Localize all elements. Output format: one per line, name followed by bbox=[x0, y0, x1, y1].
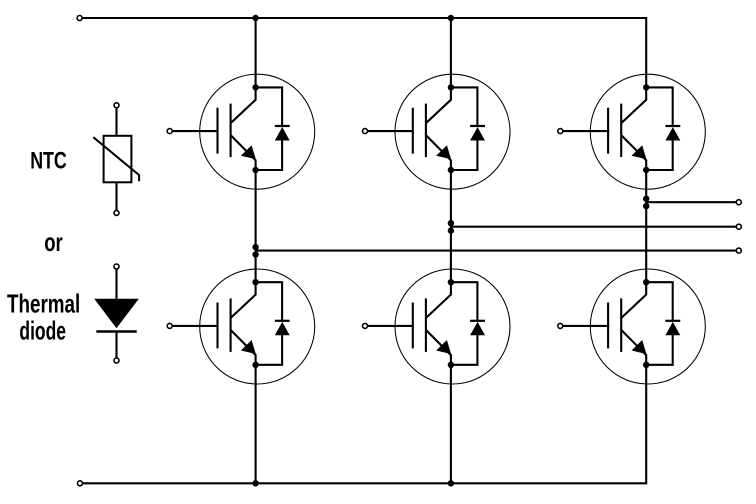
transistor Q3 (IGBT) bbox=[608, 87, 646, 170]
node: bottom rail junction bbox=[252, 480, 258, 486]
wire: phase U leg, upper emitter to lower collector bbox=[255, 170, 257, 282]
transistor envelope circle Q4 bbox=[200, 269, 315, 384]
terminal: NTC top bbox=[114, 103, 119, 108]
node: emitter junction of Q5 bbox=[448, 362, 454, 368]
transistor Q1 (IGBT) bbox=[218, 87, 256, 170]
diode D3 (anti-parallel) bbox=[646, 87, 680, 170]
node: emitter junction of Q3 bbox=[643, 167, 649, 173]
wire: gate lead of Q2 bbox=[368, 130, 414, 132]
gate terminal of Q6 bbox=[558, 323, 563, 328]
node: collector junction of Q2 bbox=[448, 84, 454, 90]
node: top rail junction bbox=[252, 15, 258, 21]
wire: phase U output line bbox=[256, 250, 737, 252]
svg-text:Thermal: Thermal bbox=[7, 289, 80, 319]
node: top rail junction bbox=[448, 15, 454, 21]
transistor envelope circle Q2 bbox=[395, 74, 510, 189]
node: emitter junction of Q1 bbox=[252, 167, 258, 173]
gate terminal of Q1 bbox=[167, 129, 172, 134]
transistor envelope circle Q1 bbox=[200, 74, 315, 189]
diode D2 (anti-parallel) bbox=[451, 87, 485, 170]
diode D4 (anti-parallel) bbox=[256, 282, 290, 365]
terminal DC- (bottom left) bbox=[78, 481, 83, 486]
wire: gate lead of Q6 bbox=[563, 325, 609, 327]
diode D5 (anti-parallel) bbox=[451, 282, 485, 365]
node: phase W mid junction dots bbox=[643, 196, 649, 202]
diode D6 (anti-parallel) bbox=[646, 282, 680, 365]
node: emitter junction of Q6 bbox=[643, 362, 649, 368]
wire: phase W leg, upper emitter to lower collector bbox=[645, 170, 647, 282]
node: collector junction of Q4 bbox=[252, 279, 258, 285]
node: collector junction of Q3 bbox=[643, 84, 649, 90]
wire: phase U leg, lower emitter to bottom rail bbox=[255, 365, 257, 484]
gate terminal of Q3 bbox=[558, 129, 563, 134]
wire: phase V leg, lower emitter to bottom rail bbox=[450, 365, 452, 484]
wire: phase V leg, rail to upper collector bbox=[450, 18, 452, 87]
terminal: NTC bottom bbox=[114, 210, 119, 215]
node: bottom rail junction bbox=[448, 480, 454, 486]
diode DT1: thermal diode bbox=[94, 269, 139, 358]
gate terminal of Q4 bbox=[167, 323, 172, 328]
transistor Q4 (IGBT) bbox=[218, 282, 256, 365]
wire: DC+ top rail bbox=[83, 18, 647, 87]
wire: gate lead of Q1 bbox=[173, 130, 219, 132]
node: emitter junction of Q4 bbox=[252, 362, 258, 368]
wire: gate lead of Q4 bbox=[173, 325, 219, 327]
wire: DC- bottom rail bbox=[83, 365, 646, 484]
svg-text:or: or bbox=[44, 227, 63, 257]
terminal: phase V output bbox=[736, 224, 741, 229]
wire: phase V output line bbox=[451, 226, 736, 228]
node: phase V mid junction dots bbox=[448, 220, 454, 226]
wire: gate lead of Q3 bbox=[563, 130, 609, 132]
svg-text:diode: diode bbox=[19, 316, 66, 346]
transistor Q5 (IGBT) bbox=[413, 282, 451, 365]
wire: phase U leg, rail to upper collector bbox=[255, 18, 257, 87]
gate terminal of Q2 bbox=[363, 129, 368, 134]
wire: phase W output line bbox=[646, 201, 736, 203]
node: emitter junction of Q2 bbox=[448, 167, 454, 173]
terminal: thermal diode top bbox=[114, 264, 119, 269]
node: collector junction of Q6 bbox=[643, 279, 649, 285]
terminal DC+ (top left) bbox=[77, 16, 82, 21]
node: phase U mid junction dots bbox=[252, 244, 258, 250]
terminal: phase W output bbox=[736, 200, 741, 205]
diode D1 (anti-parallel) bbox=[256, 87, 290, 170]
node: collector junction of Q5 bbox=[448, 279, 454, 285]
transistor envelope circle Q3 bbox=[590, 74, 705, 189]
resistor RT1: NTC thermistor bbox=[93, 108, 139, 210]
transistor envelope circle Q6 bbox=[590, 269, 705, 384]
gate terminal of Q5 bbox=[363, 323, 368, 328]
transistor envelope circle Q5 bbox=[395, 269, 510, 384]
wire: gate lead of Q5 bbox=[368, 325, 414, 327]
terminal: thermal diode bottom bbox=[114, 358, 119, 363]
transistor Q2 (IGBT) bbox=[413, 87, 451, 170]
wire: phase V leg, upper emitter to lower collector bbox=[450, 170, 452, 282]
svg-text:NTC: NTC bbox=[30, 148, 67, 175]
node: collector junction of Q1 bbox=[252, 84, 258, 90]
transistor Q6 (IGBT) bbox=[608, 282, 646, 365]
terminal: phase U output bbox=[736, 248, 741, 253]
